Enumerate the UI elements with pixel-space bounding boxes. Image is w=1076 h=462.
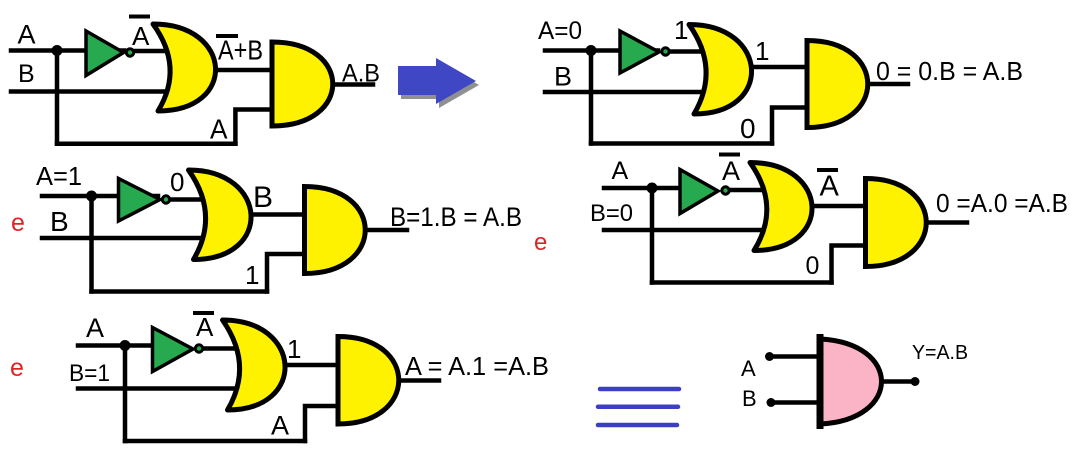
wire OR3 output c3: [242, 212, 307, 217]
wire B c4: [604, 228, 768, 233]
wire AND2 output c2: [868, 82, 908, 87]
node junction A c4: [647, 183, 658, 194]
svg-text:A: A: [86, 313, 104, 343]
wire feedback vertical c3: [89, 196, 94, 292]
label Abar+B c1: [218, 34, 236, 38]
or-gate G5 c3: [189, 170, 252, 260]
svg-text:A: A: [722, 156, 740, 186]
and-gate G6 c3: [305, 187, 366, 274]
wire AND5 output c5: [400, 378, 439, 383]
svg-text:e: e: [534, 229, 547, 256]
svg-text:1: 1: [755, 36, 769, 66]
svg-text:A: A: [196, 312, 214, 342]
svg-text:A: A: [132, 21, 150, 51]
svg-text:1: 1: [674, 15, 688, 45]
wire AND4 output c4: [927, 220, 967, 225]
node junction A c1: [52, 45, 63, 56]
wire feedback bottom c4: [652, 280, 832, 285]
equivalence line 3: [598, 423, 677, 428]
and-gate Y pink left bar: [817, 338, 824, 426]
wire feedback bottom c3: [92, 289, 268, 294]
inverter U2 bubble c2: [662, 48, 669, 55]
node input A dot pink: [765, 352, 774, 361]
node junction A c2: [586, 45, 597, 56]
wire OR1 output c1: [210, 68, 274, 73]
svg-text:1: 1: [245, 260, 259, 290]
svg-text:A: A: [820, 171, 840, 203]
and-gate G2 c1: [272, 42, 333, 126]
wire Y output pink: [882, 379, 915, 384]
svg-text:A.B: A.B: [342, 60, 380, 88]
wire AND1 input2 step c1: [235, 110, 272, 144]
equivalence line 1: [600, 387, 679, 392]
wire B c3: [42, 236, 208, 241]
inverter U3 triangle c3: [119, 179, 161, 222]
svg-text:A: A: [741, 356, 756, 381]
wire B c1: [11, 89, 172, 94]
svg-text:A: A: [612, 157, 629, 185]
wire AND2 input2 step c2: [772, 108, 807, 144]
wire bubble to OR c1: [129, 49, 168, 54]
inverter U3 bubble c3: [162, 196, 169, 203]
inverter U5 bubble c5: [195, 345, 202, 352]
inverter U2 triangle c2: [620, 31, 659, 73]
svg-text:0: 0: [170, 167, 184, 197]
wire feedback vertical c2: [589, 51, 594, 144]
svg-text:B: B: [742, 386, 757, 411]
wire B c5: [78, 386, 240, 391]
wire feedback vertical c4: [650, 188, 655, 283]
and-gate G8 c4: [866, 179, 927, 267]
wire A c2: [545, 48, 658, 53]
inverter U1 triangle c1: [86, 31, 124, 76]
wire A c5: [78, 343, 157, 348]
wire feedback bottom c2: [591, 141, 772, 146]
node junction A c5: [120, 340, 131, 351]
svg-text:A: A: [18, 20, 36, 50]
label Abar inverter out c4: [721, 153, 738, 157]
and-gate G10 c5: [338, 337, 399, 425]
or-gate G1 c1: [153, 24, 216, 111]
or-gate G9 c5: [223, 320, 286, 410]
equivalence line 2: [598, 405, 678, 410]
svg-text:0 =A.0 =A.B: 0 =A.0 =A.B: [936, 188, 1068, 218]
node junction A c3: [86, 191, 97, 202]
big blue arrow shadow: [401, 62, 479, 108]
svg-text:1: 1: [287, 334, 301, 364]
svg-text:A=0: A=0: [538, 17, 582, 45]
svg-text:A = A.1 =A.B: A = A.1 =A.B: [405, 351, 549, 381]
wire feedback vertical c5: [123, 346, 128, 442]
wire A c4: [604, 186, 684, 191]
wire B pink: [771, 400, 822, 405]
svg-text:B: B: [253, 181, 273, 214]
svg-text:e: e: [10, 354, 24, 382]
wire OR4 output c4: [803, 204, 867, 209]
wire AND5 input2 step c5: [305, 406, 338, 441]
node input B dot pink: [767, 398, 776, 407]
svg-text:A: A: [271, 411, 289, 441]
svg-text:B=0: B=0: [590, 200, 633, 227]
svg-text:B: B: [554, 62, 572, 92]
wire bubble to OR c4: [725, 188, 764, 193]
wire bubble to OR c2: [665, 49, 704, 54]
label Abar inverter out c5: [195, 311, 212, 315]
svg-text:0: 0: [740, 113, 756, 144]
svg-text:0 = 0.B = A.B: 0 = 0.B = A.B: [876, 56, 1023, 86]
wire AND4 input2 step c4: [832, 246, 867, 283]
wire AND1 output c1: [333, 82, 373, 87]
and-gate G4 c2: [807, 41, 868, 128]
wire OR5 output c5: [280, 363, 340, 368]
wire bubble to OR c3: [166, 197, 203, 202]
svg-text:B: B: [50, 206, 69, 237]
wire feedback bottom c1: [57, 142, 235, 147]
svg-text:e: e: [11, 209, 25, 237]
inverter U5 triangle c5: [153, 328, 194, 372]
svg-text:B: B: [18, 60, 35, 88]
svg-text:A: A: [210, 114, 228, 145]
label Abar c1: [131, 15, 148, 19]
wire AND3 output c3: [366, 228, 407, 233]
or-gate G7 c4: [750, 163, 812, 251]
svg-text:A=1: A=1: [36, 161, 82, 191]
label Abar OR out c4: [819, 168, 836, 172]
wire bubble to OR c5: [199, 346, 236, 351]
inverter U4 bubble c4: [722, 187, 729, 194]
wire B c2: [545, 90, 706, 95]
wire AND3 input2 step c3: [267, 254, 305, 292]
wire OR2 output c2: [745, 65, 809, 70]
svg-text:B=1.B = A.B: B=1.B = A.B: [390, 202, 522, 232]
wire A pink: [770, 354, 823, 359]
big blue arrow: [398, 58, 476, 104]
svg-text:0: 0: [806, 252, 820, 280]
svg-text:Y=A.B: Y=A.B: [912, 342, 968, 364]
or-gate G3 c2: [689, 25, 752, 115]
node output Y dot pink: [911, 377, 920, 386]
wire feedback vertical c1: [55, 51, 60, 144]
svg-text:B=1: B=1: [69, 360, 110, 387]
svg-text:A+B: A+B: [218, 35, 263, 66]
inverter U4 triangle c4: [680, 170, 718, 214]
and-gate Y pink: [820, 339, 882, 424]
inverter U1 bubble c1: [126, 49, 133, 56]
wire A c1: [11, 48, 124, 53]
wire feedback bottom c5: [125, 439, 305, 444]
wire A c3: [42, 194, 158, 199]
